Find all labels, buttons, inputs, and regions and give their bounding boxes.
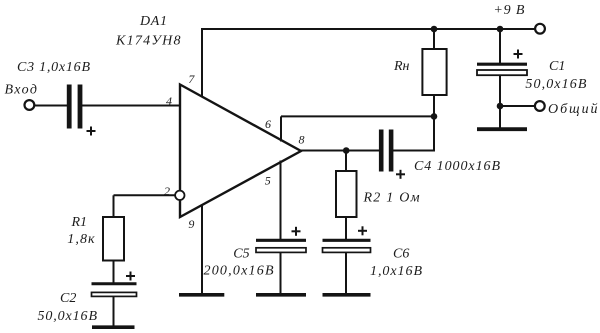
ground below C5 xyxy=(256,293,306,297)
ground pin9 xyxy=(179,293,224,297)
ground below C2 xyxy=(92,325,135,329)
op-amp U1 DA1 triangle xyxy=(180,85,301,218)
svg-text:50,0х16В: 50,0х16В xyxy=(38,309,98,324)
node C1 bottom / Obshchiy junction xyxy=(497,103,504,110)
svg-text:К174УН8: К174УН8 xyxy=(115,34,181,49)
wire Rn bottom to node xyxy=(433,95,435,116)
svg-text:Общий: Общий xyxy=(548,102,598,117)
wire C6 to ground xyxy=(345,251,347,294)
wire C1 to ground xyxy=(499,75,501,128)
wire +9V top rail xyxy=(201,28,535,30)
wire C4 to corner xyxy=(392,150,434,152)
node pin6 rail / Rn bottom junction xyxy=(431,113,438,120)
resistor Rn xyxy=(422,49,446,95)
svg-text:+9 В: +9 В xyxy=(493,3,524,18)
resistor R2 xyxy=(336,171,357,217)
wire C2 to ground xyxy=(113,297,115,327)
svg-text:Rн: Rн xyxy=(393,59,410,74)
node C1 top rail junction xyxy=(497,26,504,33)
capacitor C1 plates xyxy=(477,63,527,66)
node output / R2 junction xyxy=(343,147,350,154)
node Rn top rail junction xyxy=(431,26,438,33)
svg-text:DA1: DA1 xyxy=(139,14,167,29)
plus mark C4 xyxy=(396,173,405,175)
wire R2 to C6 xyxy=(345,217,347,239)
plus mark C6 xyxy=(358,230,367,232)
svg-text:5: 5 xyxy=(265,174,271,188)
wire C5 to ground xyxy=(280,251,282,294)
terminal input Vhod xyxy=(25,100,35,110)
terminal +9V xyxy=(535,24,545,34)
wire corner up to node xyxy=(433,116,435,151)
ground below C1 xyxy=(477,127,527,131)
svg-text:2: 2 xyxy=(164,184,170,198)
wire pin8 output xyxy=(300,150,380,152)
wire input to C3 xyxy=(34,105,67,107)
wire pin7 riser xyxy=(201,29,203,97)
wire pin9 riser xyxy=(201,205,203,294)
svg-text:С1: С1 xyxy=(549,59,565,74)
svg-text:R1: R1 xyxy=(71,215,88,230)
svg-text:С2: С2 xyxy=(60,291,76,306)
svg-text:7: 7 xyxy=(188,72,195,86)
capacitor C5 plates xyxy=(256,239,306,242)
svg-text:6: 6 xyxy=(265,117,271,131)
svg-text:С5: С5 xyxy=(233,246,249,261)
wire C3 to pin4 xyxy=(82,105,180,107)
capacitor C6 plates xyxy=(323,239,371,242)
plus mark C1 xyxy=(514,53,523,55)
capacitor C3 plates xyxy=(67,85,72,129)
svg-text:1,8к: 1,8к xyxy=(67,232,95,247)
svg-text:1,0х16В: 1,0х16В xyxy=(370,264,422,279)
terminal Obshchiy xyxy=(535,101,545,111)
svg-text:9: 9 xyxy=(188,217,194,231)
capacitor C4 plates xyxy=(379,130,384,172)
plus mark C2 xyxy=(126,275,135,277)
wire pin6 rail to Rn xyxy=(281,115,434,117)
ground below C6 xyxy=(323,293,371,297)
wire R2 junction down xyxy=(345,151,347,172)
resistor R1 xyxy=(103,217,124,261)
svg-text:R2 1 Ом: R2 1 Ом xyxy=(363,191,420,206)
wire pin2 horizontal xyxy=(114,194,176,196)
svg-text:4: 4 xyxy=(166,94,172,108)
wire rail to Rn top xyxy=(433,29,435,49)
svg-text:8: 8 xyxy=(299,133,305,147)
wire pin2 down to R1 xyxy=(113,195,115,217)
wire pin6 riser xyxy=(280,116,282,141)
svg-text:С6: С6 xyxy=(393,246,409,261)
svg-text:Вход: Вход xyxy=(5,83,38,98)
wire R1 to C2 xyxy=(113,261,115,283)
plus mark C5 xyxy=(292,230,301,232)
svg-text:С4 1000х16В: С4 1000х16В xyxy=(414,159,500,174)
plus mark C3 xyxy=(87,130,96,132)
capacitor C2 plates xyxy=(92,282,137,285)
wire to Obshchiy terminal xyxy=(500,105,535,107)
svg-text:200,0х16В: 200,0х16В xyxy=(204,264,274,279)
svg-text:С3 1,0х16В: С3 1,0х16В xyxy=(17,60,90,75)
svg-text:50,0х16В: 50,0х16В xyxy=(525,77,586,92)
wire pin5 riser to C5 xyxy=(280,161,282,240)
wire rail down to C1 xyxy=(499,29,501,63)
pin2 inverting bubble xyxy=(175,191,184,200)
